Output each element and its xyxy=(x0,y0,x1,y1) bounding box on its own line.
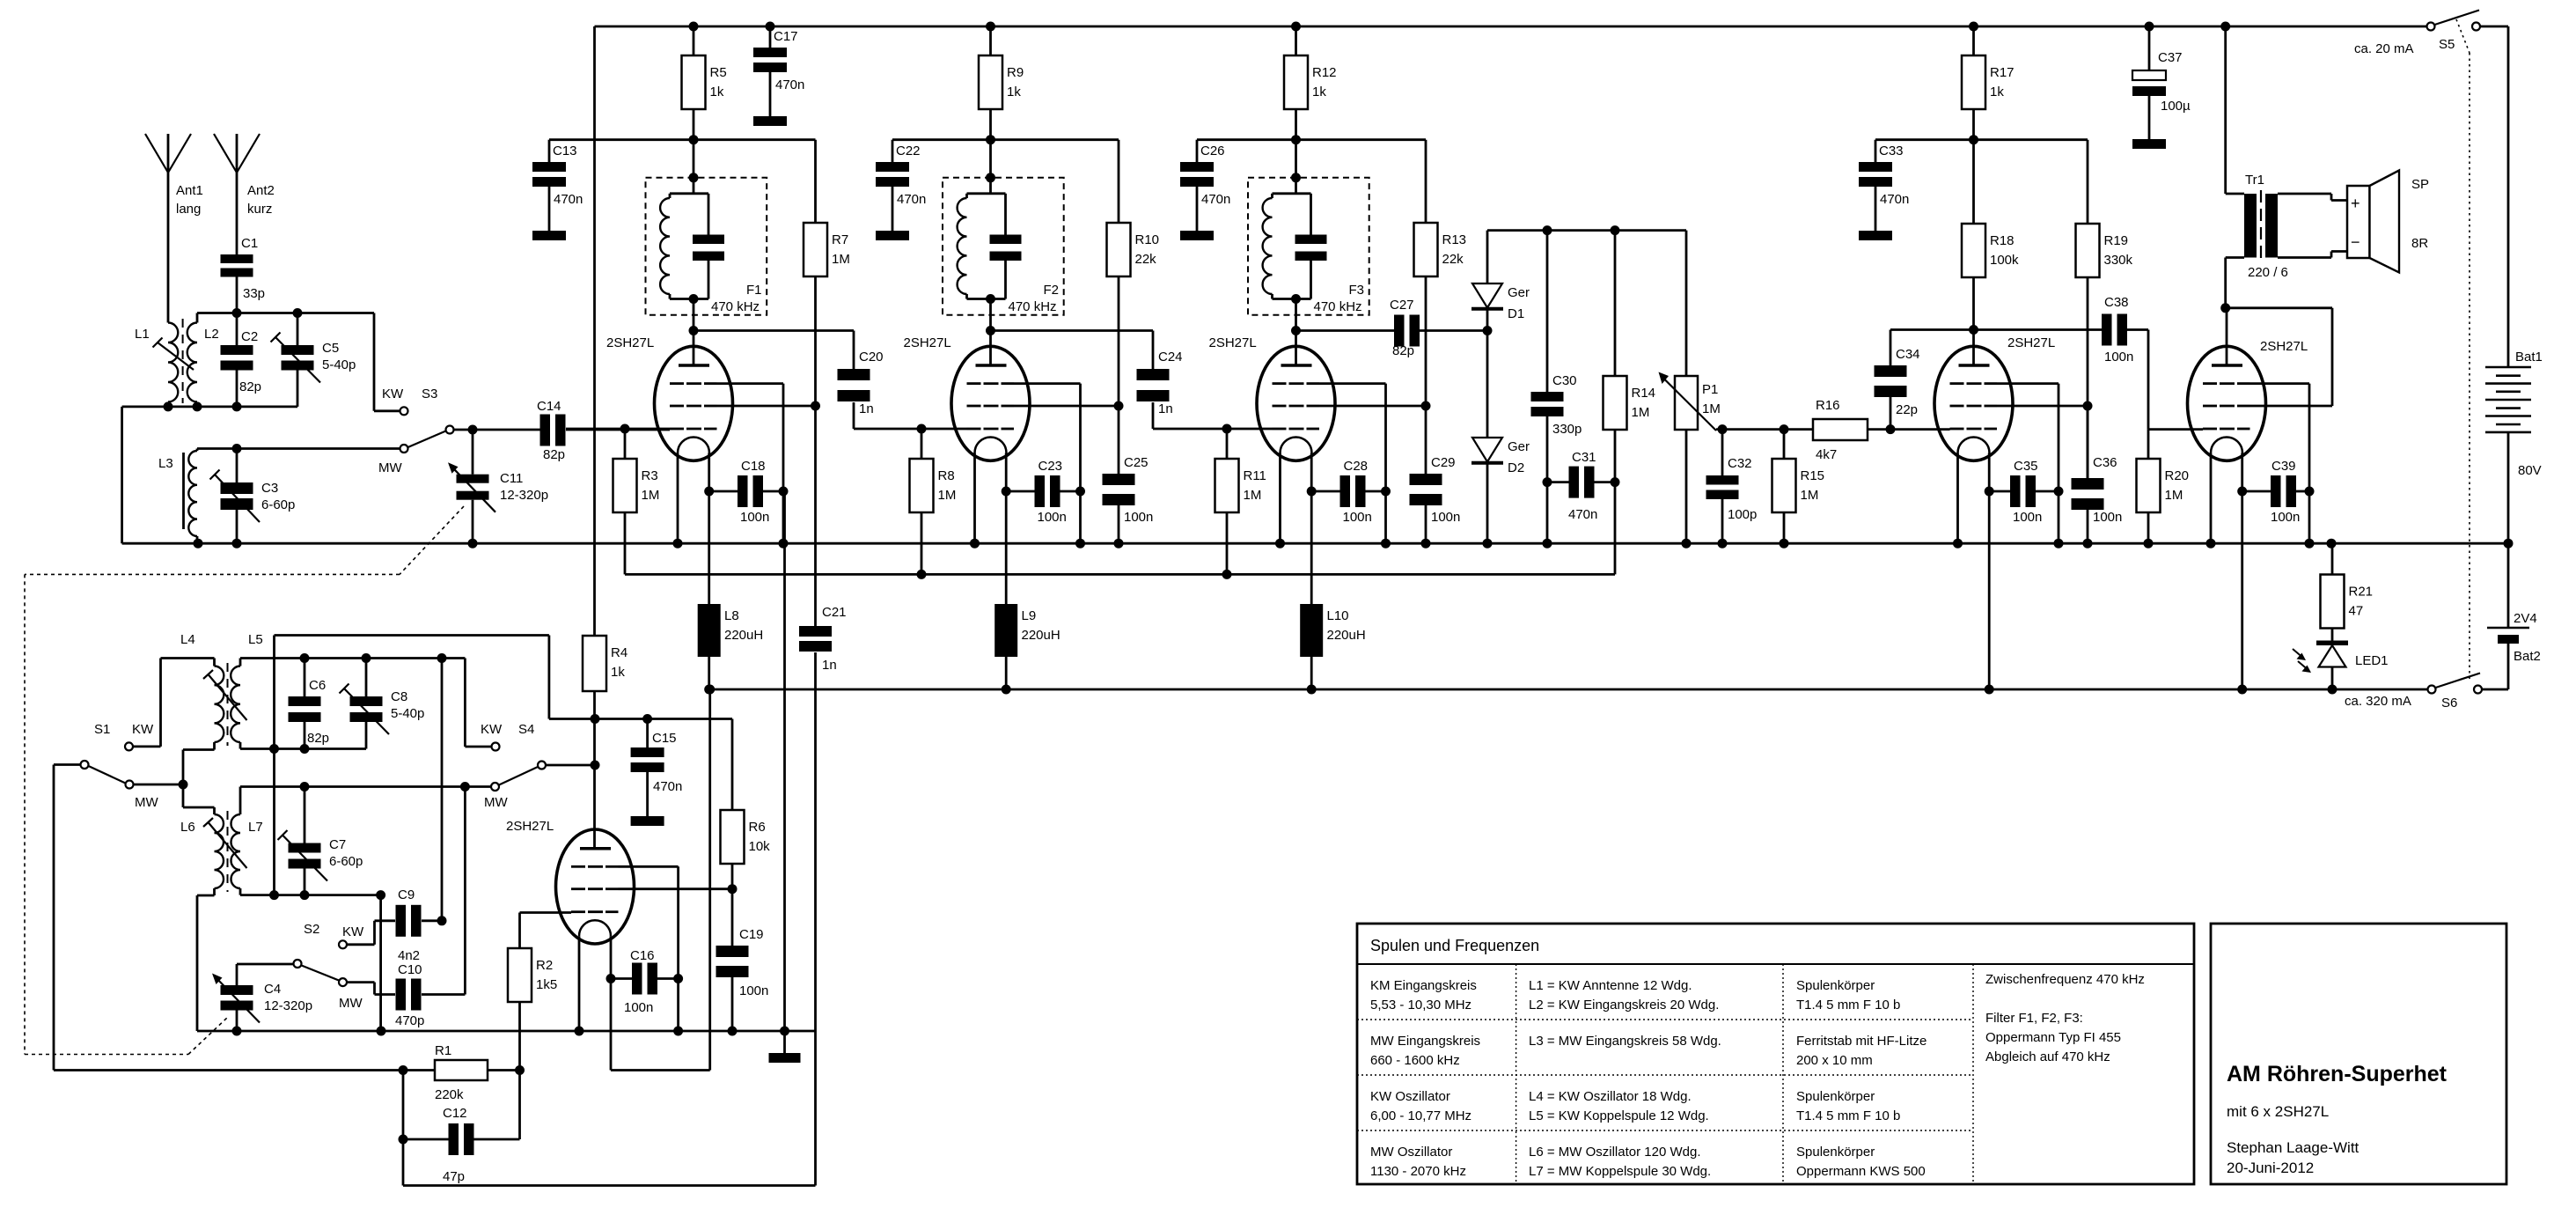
svg-text:L4: L4 xyxy=(180,632,195,647)
svg-text:6-60p: 6-60p xyxy=(329,854,363,869)
wire KW input tank top xyxy=(197,312,374,314)
svg-text:1M: 1M xyxy=(1244,488,1262,503)
resistor R20 1M xyxy=(2147,430,2150,459)
capacitor C6 82p xyxy=(304,659,306,697)
svg-text:Ger: Ger xyxy=(1508,285,1530,300)
inductor L4 KW oscillator xyxy=(215,666,224,743)
wire oscillator plate node xyxy=(549,718,732,720)
svg-text:L6: L6 xyxy=(180,820,195,835)
capacitor C2 82p xyxy=(236,313,239,346)
svg-text:C38: C38 xyxy=(2104,295,2129,310)
svg-text:22p: 22p xyxy=(1896,402,1918,417)
svg-text:660 - 1600 kHz: 660 - 1600 kHz xyxy=(1370,1053,1460,1068)
node junctions stage2 xyxy=(986,22,995,32)
capacitor C13 470n with ground bar xyxy=(548,140,551,162)
capacitor C39 100n xyxy=(2242,490,2271,493)
capacitor C33 470n with ground bar xyxy=(1875,140,1877,162)
svg-text:470p: 470p xyxy=(395,1013,424,1028)
wire detector top line xyxy=(1487,229,1686,232)
svg-text:47p: 47p xyxy=(443,1169,465,1184)
IF transformer F1 470 kHz xyxy=(646,178,767,315)
svg-text:L10: L10 xyxy=(1327,608,1349,623)
svg-text:AM Röhren-Superhet: AM Röhren-Superhet xyxy=(2227,1062,2448,1086)
svg-text:R1: R1 xyxy=(435,1043,451,1058)
LED1 xyxy=(2316,641,2348,646)
svg-text:C2: C2 xyxy=(241,329,258,344)
svg-text:1n: 1n xyxy=(822,658,837,673)
svg-text:C24: C24 xyxy=(1158,350,1183,364)
svg-text:C28: C28 xyxy=(1344,459,1369,474)
svg-text:470n: 470n xyxy=(775,77,804,92)
svg-text:C11: C11 xyxy=(500,471,523,486)
wire input ground drop xyxy=(121,407,123,543)
wire osc screen grid xyxy=(619,887,733,890)
wire screen grid stage2 xyxy=(1014,405,1119,408)
svg-text:47: 47 xyxy=(2349,604,2364,619)
svg-text:C31: C31 xyxy=(1572,450,1596,465)
svg-text:Ger: Ger xyxy=(1508,439,1530,454)
svg-text:R12: R12 xyxy=(1312,65,1337,80)
wire filament stage6 xyxy=(2241,453,2243,690)
LED1 light arrows xyxy=(2293,649,2301,657)
wire grid line stage1 xyxy=(566,428,670,431)
svg-text:100n: 100n xyxy=(2013,510,2042,525)
wire cathode stage2 xyxy=(973,453,976,544)
svg-text:KW: KW xyxy=(342,924,364,939)
wire filament stage5 xyxy=(1988,453,1991,690)
tuning capacitor C4 12-320p xyxy=(236,964,239,985)
svg-text:KW: KW xyxy=(382,387,404,401)
capacitor C10 470p xyxy=(375,993,396,996)
diode D1 Ger xyxy=(1486,231,1489,283)
svg-text:MW Eingangskreis: MW Eingangskreis xyxy=(1370,1034,1480,1049)
svg-text:4n2: 4n2 xyxy=(398,948,420,963)
wire suppressor stage5 xyxy=(1997,382,2059,385)
svg-text:C10: C10 xyxy=(398,962,422,977)
svg-text:C26: C26 xyxy=(1200,144,1225,158)
svg-text:R3: R3 xyxy=(642,468,658,483)
wire cathode stage5 xyxy=(1956,453,1959,544)
resistor R10 22k xyxy=(1118,140,1120,223)
capacitor C27 82p xyxy=(1394,315,1405,347)
svg-text:100k: 100k xyxy=(1990,253,2019,268)
svg-text:220uH: 220uH xyxy=(1022,628,1060,643)
svg-text:C16: C16 xyxy=(630,948,655,963)
svg-text:Bat1: Bat1 xyxy=(2515,350,2543,364)
capacitor C1 33p xyxy=(221,254,253,263)
capacitor C26 470n with ground bar xyxy=(1196,140,1199,162)
svg-text:Abgleich auf 470 kHz: Abgleich auf 470 kHz xyxy=(1985,1049,2110,1064)
svg-text:Oppermann KWS 500: Oppermann KWS 500 xyxy=(1796,1164,1926,1179)
resistor R16 4k7 xyxy=(1813,419,1868,440)
wire screen strap stage6 xyxy=(2250,405,2333,408)
resistor R6 10k xyxy=(731,719,734,811)
svg-text:22k: 22k xyxy=(1135,252,1157,267)
tube V4 2SH27L oscillator xyxy=(556,829,635,944)
svg-text:R17: R17 xyxy=(1990,65,2015,80)
svg-text:2SH27L: 2SH27L xyxy=(1209,335,1257,350)
ground symbol main xyxy=(783,1031,786,1053)
svg-text:Spulenkörper: Spulenkörper xyxy=(1796,1089,1875,1104)
tube V1 2SH27L xyxy=(655,346,733,460)
switch S6 xyxy=(2428,686,2436,694)
capacitor C28 100n cathode bypass xyxy=(1311,490,1340,493)
svg-text:2SH27L: 2SH27L xyxy=(904,335,951,350)
IF transformer F3 470 kHz xyxy=(1248,178,1369,315)
svg-text:L5 = KW Koppelspule 12 Wdg.: L5 = KW Koppelspule 12 Wdg. xyxy=(1529,1108,1709,1123)
svg-text:L3: L3 xyxy=(158,456,173,471)
wire S1 pole down-wire xyxy=(53,765,55,1071)
wire grid line stage6 xyxy=(2148,428,2203,431)
svg-text:T1.4 5 mm F 10 b: T1.4 5 mm F 10 b xyxy=(1796,1108,1900,1123)
tube V2 2SH27L xyxy=(951,346,1030,460)
capacitor C18 100n cathode bypass xyxy=(709,490,738,493)
svg-text:8R: 8R xyxy=(2411,236,2428,251)
svg-text:S3: S3 xyxy=(422,387,437,401)
svg-text:470n: 470n xyxy=(554,192,583,207)
resistor R8 1M grid leak xyxy=(921,429,923,459)
capacitor C19 100n xyxy=(716,946,749,957)
svg-text:2SH27L: 2SH27L xyxy=(2007,335,2055,350)
svg-text:L7 = MW Koppelspule 30 Wdg.: L7 = MW Koppelspule 30 Wdg. xyxy=(1529,1164,1711,1179)
svg-text:200 x 10 mm: 200 x 10 mm xyxy=(1796,1053,1873,1068)
capacitor C29 100n screen bypass xyxy=(1425,406,1427,474)
svg-text:470n: 470n xyxy=(1201,192,1230,207)
wire C10 riser to MW line xyxy=(464,787,466,995)
svg-text:C14: C14 xyxy=(537,399,561,414)
svg-text:100n: 100n xyxy=(2104,350,2133,364)
wire B+ top rail xyxy=(595,26,2427,28)
svg-text:L3 = MW Eingangskreis 58 Wdg.: L3 = MW Eingangskreis 58 Wdg. xyxy=(1529,1034,1721,1049)
svg-text:100n: 100n xyxy=(739,983,768,998)
svg-text:C29: C29 xyxy=(1431,455,1456,470)
svg-text:470 kHz: 470 kHz xyxy=(711,299,760,314)
node junctions stage1 xyxy=(689,22,699,32)
wire grid line stage2 xyxy=(854,428,967,431)
wire plate to transformer stage6 xyxy=(2226,306,2332,309)
svg-text:R16: R16 xyxy=(1816,398,1840,413)
adjustable core arrow L6 L7 xyxy=(209,822,247,868)
inductor L10 220uH filament choke xyxy=(1300,604,1323,657)
wire osc cathode xyxy=(578,936,581,1031)
svg-text:220 / 6: 220 / 6 xyxy=(2248,265,2288,280)
svg-text:1130 - 2070 kHz: 1130 - 2070 kHz xyxy=(1370,1164,1466,1179)
resistor R4 1k xyxy=(583,636,606,691)
svg-text:12-320p: 12-320p xyxy=(500,488,548,503)
node stage5 junctions xyxy=(1969,22,1978,32)
svg-text:MW: MW xyxy=(339,996,363,1011)
mechanical link S5 S6 xyxy=(2456,19,2470,53)
svg-text:C19: C19 xyxy=(739,927,764,942)
speaker SP 8R xyxy=(2347,186,2370,258)
svg-text:MW Oszillator: MW Oszillator xyxy=(1370,1145,1452,1160)
svg-text:S6: S6 xyxy=(2441,696,2457,711)
resistor R19 330k xyxy=(2087,140,2089,224)
adjustable core arrow L1 L2 xyxy=(158,342,194,370)
wire ground riser stage1 extension xyxy=(783,491,786,1031)
svg-text:ca. 20 mA: ca. 20 mA xyxy=(2354,41,2414,56)
wire ground bus xyxy=(122,542,2508,545)
trimmer capacitor C8 5-40p xyxy=(365,659,368,697)
svg-text:R7: R7 xyxy=(832,232,848,247)
svg-text:C39: C39 xyxy=(2271,459,2296,474)
wire osc suppressor xyxy=(619,865,679,868)
mechanical link tuning gang C11 C4 xyxy=(400,506,464,574)
potentiometer P1 1M volume xyxy=(1685,231,1688,376)
svg-text:Spulenkörper: Spulenkörper xyxy=(1796,978,1875,993)
capacitor C36 100n screen bypass xyxy=(2087,406,2089,478)
capacitor C23 100n cathode bypass xyxy=(1006,490,1035,493)
svg-text:S5: S5 xyxy=(2439,37,2455,52)
svg-text:KW: KW xyxy=(481,722,503,737)
svg-text:L9: L9 xyxy=(1022,608,1037,623)
inductor L5 KW coupling xyxy=(231,666,240,743)
wire filament stage1 xyxy=(708,453,710,605)
svg-text:R14: R14 xyxy=(1632,386,1656,401)
diode D2 Ger xyxy=(1472,438,1502,462)
svg-text:1M: 1M xyxy=(2165,488,2183,503)
svg-text:Oppermann Typ FI 455: Oppermann Typ FI 455 xyxy=(1985,1030,2121,1045)
svg-text:L1 = KW Anntenne 12 Wdg.: L1 = KW Anntenne 12 Wdg. xyxy=(1529,978,1692,993)
resistor R7 1M xyxy=(814,140,817,223)
title block xyxy=(2211,924,2506,1184)
transformer core L1 L2 xyxy=(182,319,184,403)
svg-text:220k: 220k xyxy=(435,1087,464,1102)
wire grid line stage5 xyxy=(1890,428,1950,431)
svg-text:Spulen und Frequenzen: Spulen und Frequenzen xyxy=(1370,937,1539,954)
svg-text:2V4: 2V4 xyxy=(2514,611,2537,626)
wire screen grid stage5 xyxy=(1997,405,2088,408)
svg-text:MW: MW xyxy=(135,795,158,810)
svg-text:82p: 82p xyxy=(307,731,329,746)
wire screen rail stage1 xyxy=(549,138,816,141)
svg-text:F3: F3 xyxy=(1349,283,1365,298)
svg-text:L2 = KW Eingangskreis 20 Wdg.: L2 = KW Eingangskreis 20 Wdg. xyxy=(1529,998,1719,1012)
resistor R1 220k xyxy=(403,1069,435,1071)
svg-text:L6 = MW Oszillator 120 Wdg.: L6 = MW Oszillator 120 Wdg. xyxy=(1529,1145,1700,1160)
svg-text:Stephan Laage-Witt: Stephan Laage-Witt xyxy=(2227,1139,2359,1156)
wire Tr1 secondary to speaker xyxy=(2278,193,2331,195)
node Bat1 ground xyxy=(2504,539,2514,549)
svg-text:100µ: 100µ xyxy=(2161,99,2191,114)
svg-text:R21: R21 xyxy=(2349,585,2374,600)
svg-text:2SH27L: 2SH27L xyxy=(2260,339,2308,354)
svg-text:1k: 1k xyxy=(1312,85,1326,99)
svg-text:C6: C6 xyxy=(309,678,326,693)
capacitor C17 470n with ground bar xyxy=(769,26,772,48)
inductor L7 MW coupling xyxy=(231,814,241,888)
svg-text:1k5: 1k5 xyxy=(536,977,557,992)
wire bottom ground bus xyxy=(197,1030,816,1033)
svg-text:Zwischenfrequenz 470 kHz: Zwischenfrequenz 470 kHz xyxy=(1985,972,2145,987)
svg-text:+: + xyxy=(2351,195,2360,212)
svg-text:lang: lang xyxy=(176,202,201,217)
capacitor C37 100u electrolytic xyxy=(2148,26,2151,70)
svg-text:100n: 100n xyxy=(2271,510,2300,525)
wire MW tank top xyxy=(197,447,400,450)
trimmer capacitor C5 5-40p xyxy=(297,313,299,346)
svg-text:C1: C1 xyxy=(241,236,258,251)
transformer Tr1 220/6 xyxy=(2244,194,2257,258)
svg-text:C15: C15 xyxy=(652,731,677,746)
wire KW input tank bottom xyxy=(122,405,297,408)
capacitor C24 1n xyxy=(1152,331,1155,370)
wire C14 to grid V1 xyxy=(566,429,670,431)
svg-text:L8: L8 xyxy=(724,608,739,623)
svg-text:S1: S1 xyxy=(94,722,110,737)
node junctions stage3 xyxy=(1291,22,1301,32)
wire cathode stage6 xyxy=(2210,453,2213,544)
capacitor C30 330p xyxy=(1546,231,1549,392)
svg-text:MW: MW xyxy=(484,795,508,810)
resistor R15 1M xyxy=(1783,430,1786,459)
wire AGC bias bus xyxy=(625,573,1615,576)
svg-text:C21: C21 xyxy=(822,605,847,620)
svg-text:470n: 470n xyxy=(1880,192,1909,207)
svg-text:10k: 10k xyxy=(749,839,771,854)
wire filament stage3 xyxy=(1310,453,1313,605)
wire filament stage2 xyxy=(1005,453,1008,605)
battery Bat2 2V4 xyxy=(2507,543,2510,628)
svg-text:P1: P1 xyxy=(1702,382,1718,397)
wire cathode stage1 xyxy=(677,453,679,544)
wire B+ drop to R4 xyxy=(593,26,596,636)
adjustable core arrow L4 L5 xyxy=(209,674,247,720)
svg-text:C4: C4 xyxy=(264,982,281,997)
wire S1-KW to L4 xyxy=(161,657,215,659)
svg-text:L5: L5 xyxy=(248,632,263,647)
svg-text:Filter F1, F2, F3:: Filter F1, F2, F3: xyxy=(1985,1011,2083,1026)
svg-text:C7: C7 xyxy=(329,837,346,852)
svg-text:12-320p: 12-320p xyxy=(264,998,312,1013)
capacitor C16 100n xyxy=(611,977,632,980)
capacitor C25 100n screen bypass xyxy=(1118,406,1120,474)
wire suppressor stage6 xyxy=(2250,382,2310,385)
svg-text:2SH27L: 2SH27L xyxy=(506,819,554,834)
wire KW osc tank to plate xyxy=(275,634,549,637)
inductor L1 xyxy=(168,323,178,402)
svg-text:470 kHz: 470 kHz xyxy=(1009,299,1057,314)
svg-text:C36: C36 xyxy=(2093,455,2117,470)
svg-text:S4: S4 xyxy=(518,722,534,737)
svg-text:82p: 82p xyxy=(1392,343,1414,358)
inductor L6 MW oscillator xyxy=(215,814,224,888)
svg-text:Ferritstab mit HF-Litze: Ferritstab mit HF-Litze xyxy=(1796,1034,1926,1049)
svg-text:20-Juni-2012: 20-Juni-2012 xyxy=(2227,1160,2314,1176)
svg-text:L7: L7 xyxy=(248,820,263,835)
svg-text:T1.4 5 mm F 10 b: T1.4 5 mm F 10 b xyxy=(1796,998,1900,1012)
svg-text:1M: 1M xyxy=(938,488,957,503)
svg-text:6,00 - 10,77 MHz: 6,00 - 10,77 MHz xyxy=(1370,1108,1471,1123)
svg-text:KW Oszillator: KW Oszillator xyxy=(1370,1089,1450,1104)
resistor R5 1k xyxy=(693,26,695,55)
svg-text:C18: C18 xyxy=(741,459,766,474)
svg-text:C37: C37 xyxy=(2158,50,2183,65)
capacitor C21 1n screen bypass xyxy=(814,406,817,626)
svg-text:C23: C23 xyxy=(1038,459,1063,474)
inductor L9 220uH filament choke xyxy=(994,604,1017,657)
capacitor C31 470n xyxy=(1547,481,1569,483)
switch S2 xyxy=(294,960,302,968)
svg-text:S2: S2 xyxy=(304,922,319,937)
transformer Tr1 primary lead xyxy=(2224,26,2227,194)
tube V6 2SH27L output xyxy=(2188,346,2266,460)
svg-text:330p: 330p xyxy=(1552,422,1582,437)
capacitor C9 4n2 xyxy=(375,919,396,922)
wire wiper line xyxy=(1716,428,1813,431)
svg-text:1M: 1M xyxy=(832,252,850,267)
capacitor C32 100p xyxy=(1721,430,1724,475)
trimmer capacitor C7 6-60p xyxy=(304,787,306,843)
switch S3 xyxy=(373,313,376,411)
svg-text:C8: C8 xyxy=(391,689,407,704)
antenna Ant1 xyxy=(167,134,170,173)
wire screen rail stage5 xyxy=(1875,138,2088,141)
svg-text:Ant2: Ant2 xyxy=(247,183,275,198)
svg-text:C25: C25 xyxy=(1124,455,1149,470)
inductor L2 xyxy=(187,323,197,402)
svg-text:L1: L1 xyxy=(135,327,150,342)
svg-text:R20: R20 xyxy=(2165,468,2190,483)
wire grid line stage3 xyxy=(1153,428,1273,431)
wire L6 bottom drop xyxy=(197,895,215,897)
wire right rail to Bat1 xyxy=(2507,26,2510,367)
svg-text:80V: 80V xyxy=(2518,463,2542,478)
svg-text:220uH: 220uH xyxy=(724,628,763,643)
switch S4 xyxy=(492,743,500,751)
resistor R2 1k5 xyxy=(508,948,532,1002)
svg-text:33p: 33p xyxy=(243,286,265,301)
svg-text:C27: C27 xyxy=(1390,298,1414,313)
resistor R17 1k xyxy=(1972,26,1975,55)
svg-text:R9: R9 xyxy=(1007,65,1024,80)
wire C9 riser xyxy=(441,659,444,921)
svg-text:mit 6 x 2SH27L: mit 6 x 2SH27L xyxy=(2227,1103,2329,1120)
wire Bat2 to S6 xyxy=(2478,688,2509,691)
capacitor C15 470n with ground bar xyxy=(646,719,649,748)
svg-text:470n: 470n xyxy=(653,779,682,794)
wire osc filament xyxy=(610,936,613,1070)
tube V3 2SH27L xyxy=(1257,346,1335,460)
wire L4 bottom to L6 xyxy=(183,748,215,751)
wire osc control grid xyxy=(520,911,572,914)
svg-text:R5: R5 xyxy=(710,65,727,80)
svg-text:MW: MW xyxy=(378,460,402,475)
svg-text:82p: 82p xyxy=(543,447,565,462)
P1 wiper arrow xyxy=(1662,377,1716,431)
svg-text:C17: C17 xyxy=(774,29,798,44)
tuning capacitor C11 12-320p xyxy=(472,430,474,475)
svg-text:R18: R18 xyxy=(1990,233,2015,248)
svg-text:C33: C33 xyxy=(1879,144,1904,158)
resistor R12 1k xyxy=(1295,26,1297,55)
wire screen rail stage2 xyxy=(892,138,1119,141)
svg-text:C35: C35 xyxy=(2014,459,2038,474)
resistor R3 1M grid leak xyxy=(624,429,627,459)
wire plate line stage2 to C24 xyxy=(991,329,1154,332)
svg-text:F2: F2 xyxy=(1044,283,1060,298)
svg-text:L4 = KW Oszillator 18 Wdg.: L4 = KW Oszillator 18 Wdg. xyxy=(1529,1089,1692,1104)
resistor R21 47 xyxy=(2331,543,2334,574)
svg-text:1M: 1M xyxy=(1632,405,1650,420)
node stage6 junctions xyxy=(2220,303,2230,313)
capacitor C12 47p xyxy=(402,1071,405,1140)
switch S5 xyxy=(2427,23,2435,31)
wire L5 riser xyxy=(273,636,275,895)
svg-text:1n: 1n xyxy=(859,401,874,416)
svg-text:1k: 1k xyxy=(1990,85,2004,99)
svg-text:5,53 - 10,30 MHz: 5,53 - 10,30 MHz xyxy=(1370,998,1471,1012)
